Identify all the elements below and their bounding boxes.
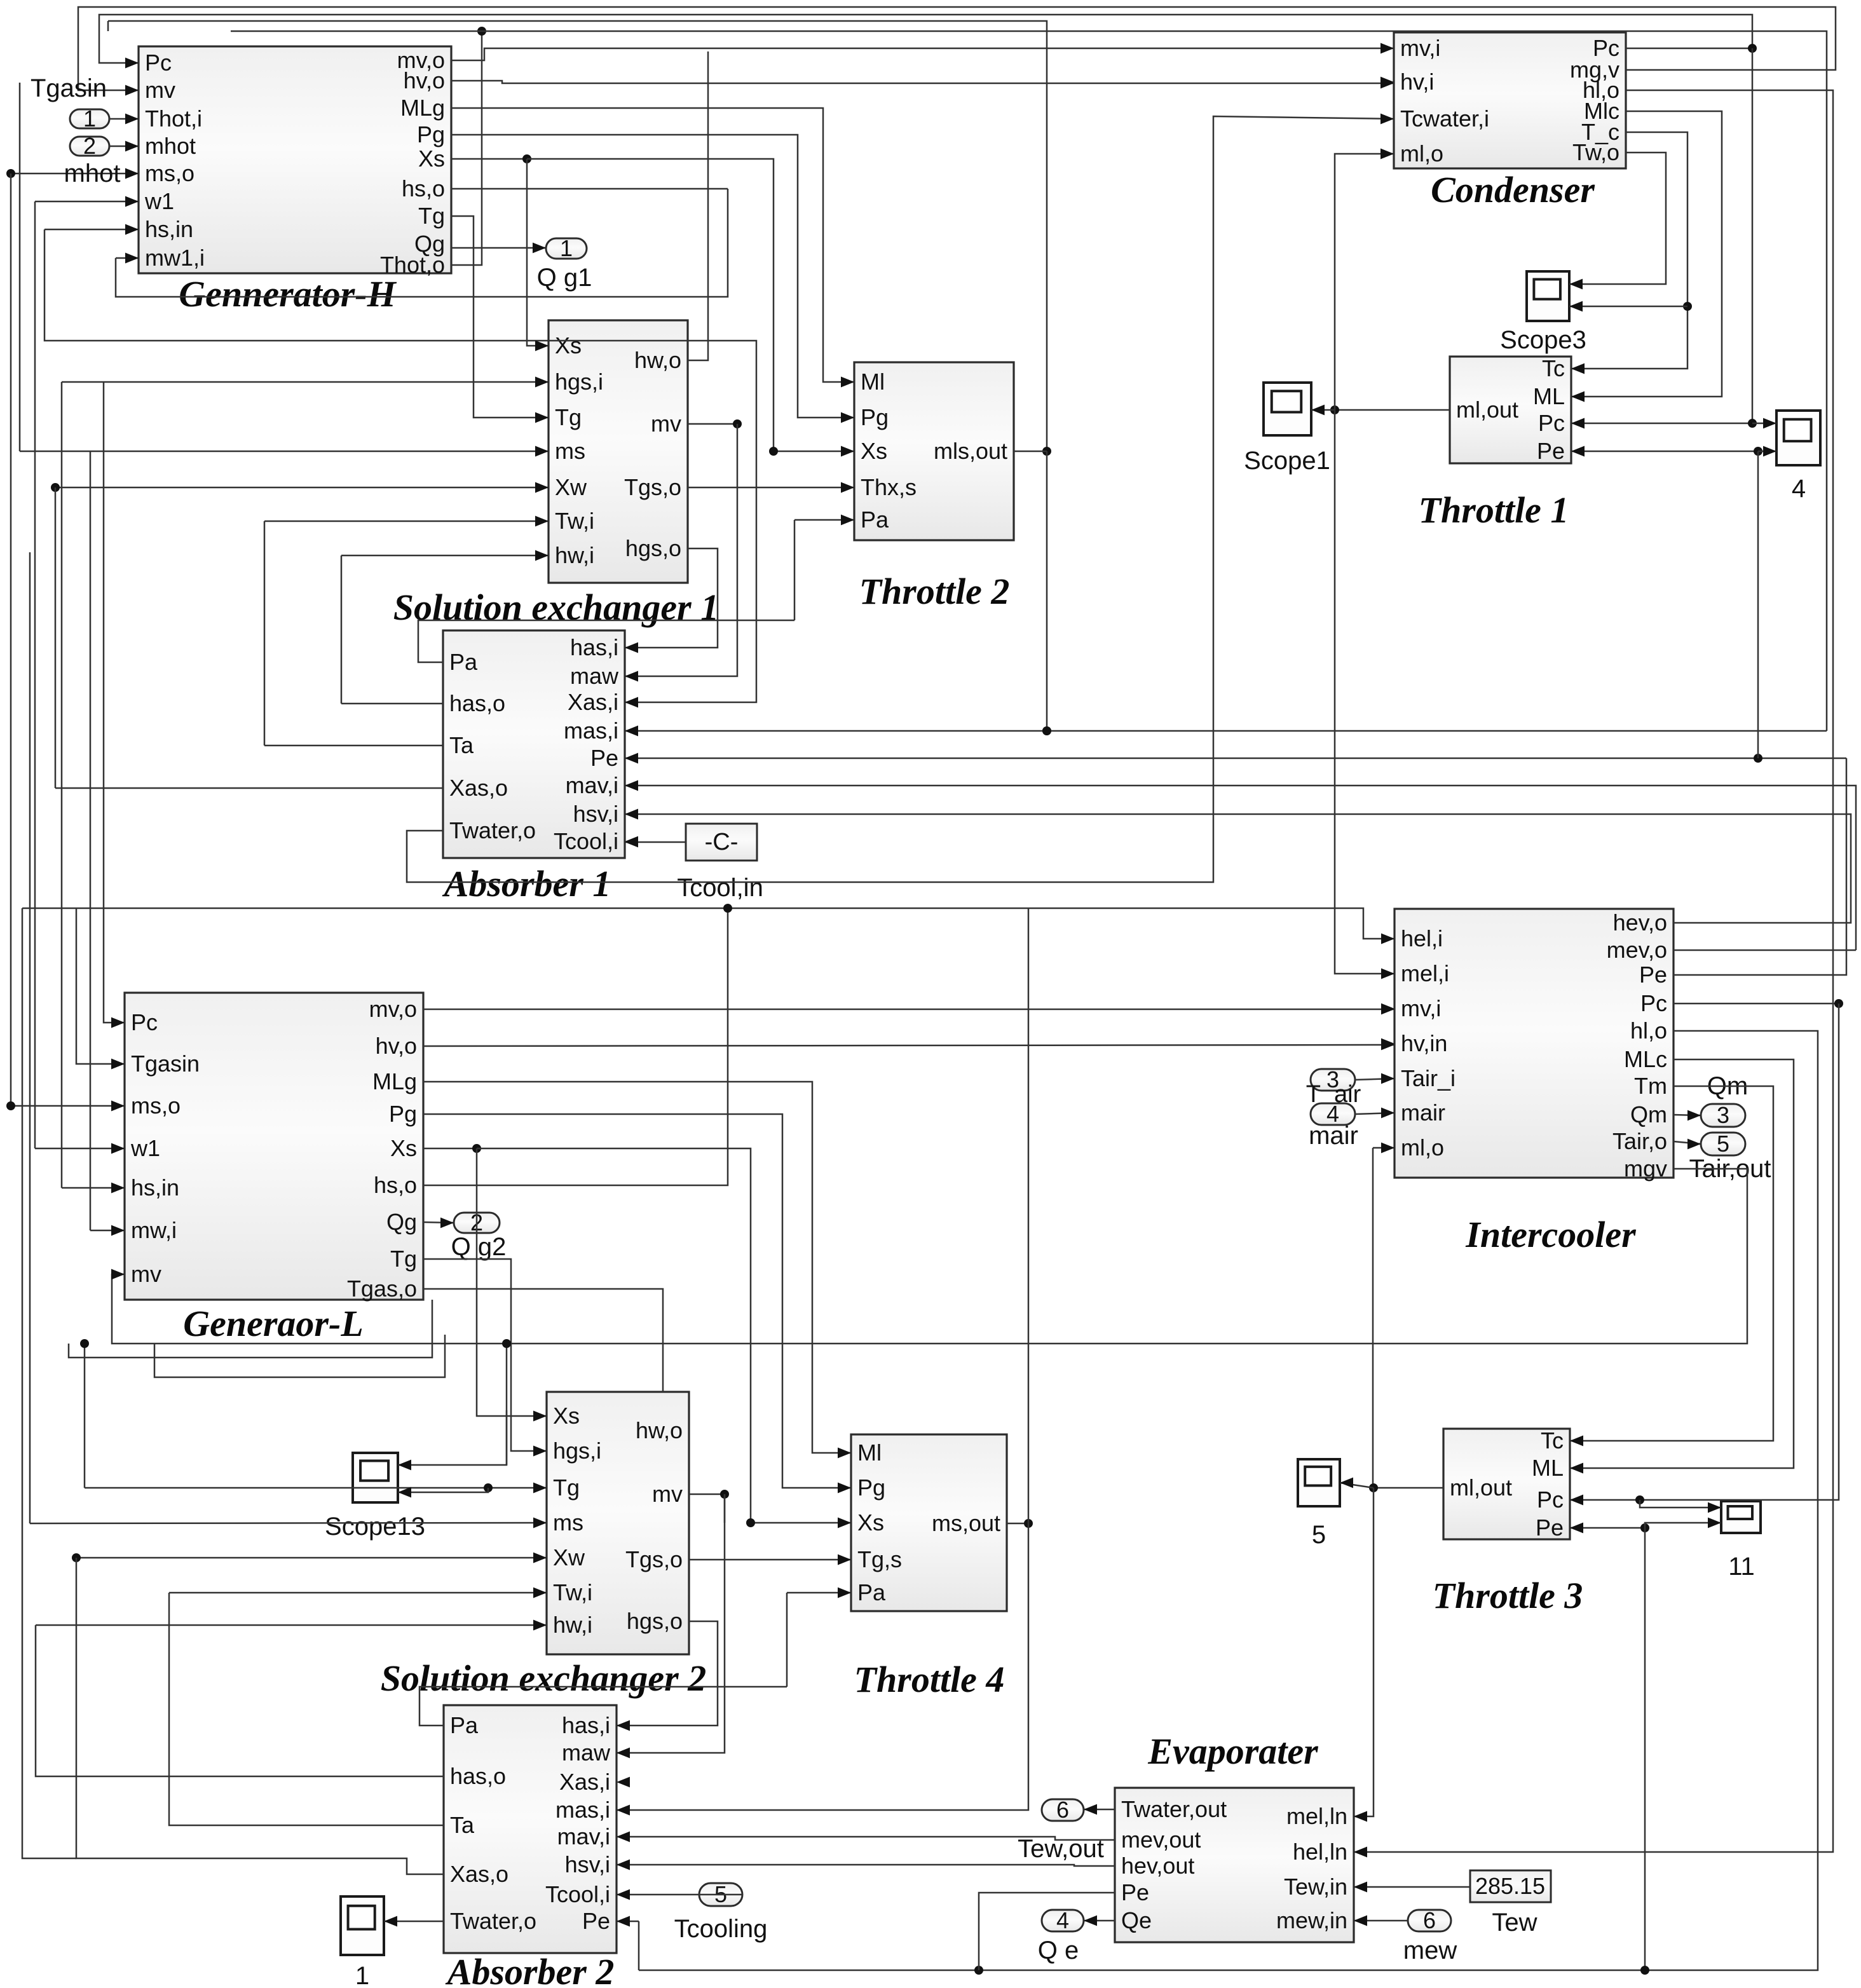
port oval 1 Thot,i	[70, 106, 109, 132]
wire Pe into Absorber2	[617, 1916, 639, 1927]
svg-text:Generaor-L: Generaor-L	[183, 1303, 364, 1344]
svg-text:mair: mair	[1309, 1122, 1358, 1150]
svg-text:Pc: Pc	[131, 1009, 158, 1035]
svg-text:Absorber 1: Absorber 1	[442, 863, 611, 904]
wire ml,out to Intercooler mel,i	[1335, 410, 1394, 979]
wire x47 long vertical	[29, 552, 31, 1523]
svg-text:mv: mv	[652, 1481, 683, 1507]
wire Qg to oval2	[423, 1218, 454, 1229]
svg-text:Throttle 4: Throttle 4	[854, 1659, 1005, 1700]
svg-text:Tgs,o: Tgs,o	[624, 474, 681, 500]
svg-text:mel,ln: mel,ln	[1286, 1803, 1347, 1829]
svg-text:MLc: MLc	[1624, 1046, 1667, 1072]
scope Scope1	[1264, 383, 1311, 435]
wire hw,i feed	[36, 1620, 547, 1631]
svg-text:ml,o: ml,o	[1400, 140, 1443, 167]
port oval 1 Qg1 out	[546, 235, 587, 261]
wire Xs out	[423, 1144, 481, 1153]
port oval 3 Tair_i	[1311, 1066, 1355, 1093]
wire Twater,o to scope 1	[384, 1916, 444, 1927]
svg-text:MLg: MLg	[372, 1068, 417, 1094]
svg-text:hgs,o: hgs,o	[627, 1608, 683, 1634]
wire Pg to Throttle4 Pg	[423, 1114, 851, 1493]
svg-text:hs,in: hs,in	[145, 216, 193, 242]
wire GenL hs,o up to long line	[423, 904, 732, 1185]
svg-text:mv,i: mv,i	[1401, 995, 1441, 1021]
block Throttle 4	[838, 1434, 1007, 1700]
svg-text:ms,o: ms,o	[145, 160, 194, 186]
wire Pe to Throttle1 Pe	[1571, 446, 1762, 457]
wire mls,out stub	[1014, 451, 1047, 453]
wire mv out	[689, 1490, 729, 1499]
wire Pa hook to Throttle2 Pa	[418, 620, 794, 662]
svg-text:1: 1	[560, 235, 573, 261]
wire hs,in loop down to Absorber1 Xas,i	[44, 229, 756, 707]
wire to Scope1	[1311, 405, 1335, 416]
svg-text:ms,o: ms,o	[131, 1093, 181, 1119]
svg-text:Tair_i: Tair_i	[1401, 1065, 1455, 1091]
svg-text:ml,o: ml,o	[1401, 1134, 1444, 1161]
wire MLg to Throttle2 Ml	[451, 108, 854, 387]
wire Pc to Throttle3	[1570, 1004, 1839, 1505]
wire mgv to Generaor-L mv	[111, 1169, 1747, 1344]
wire Ta out to left	[264, 745, 443, 747]
wire -C- to Tcool,i	[625, 837, 686, 848]
svg-text:Tg: Tg	[390, 1246, 417, 1272]
svg-text:hw,i: hw,i	[553, 1612, 592, 1638]
svg-text:Xs: Xs	[555, 332, 582, 358]
svg-text:Tc: Tc	[1541, 1427, 1564, 1454]
wire ms,out stub	[1007, 1519, 1033, 1528]
block Condenser	[1380, 32, 1626, 210]
wire Twater,o to Condenser Tcwater,i	[407, 114, 1394, 882]
svg-text:Throttle 1: Throttle 1	[1419, 489, 1569, 531]
wire mew oval to mew,in	[1354, 1916, 1408, 1926]
wire Xs to Throttle4 Xs	[477, 1148, 851, 1528]
svg-text:mev,out: mev,out	[1121, 1827, 1201, 1853]
svg-text:Tg,s: Tg,s	[857, 1546, 902, 1572]
block Throttle 3	[1433, 1427, 1583, 1616]
wire Tgs,o to Throttle2 Thx,s	[688, 482, 854, 493]
wire y33 stub down	[107, 21, 109, 31]
wire Tair,o to oval5	[1674, 1139, 1701, 1150]
wire Xs to Throttle2 Xs	[527, 159, 854, 456]
port oval 2 mhot	[70, 133, 109, 159]
svg-text:ms: ms	[553, 1509, 583, 1535]
svg-text:hsv,i: hsv,i	[573, 801, 618, 827]
wire mev,o to mav,i	[625, 780, 1856, 950]
svg-text:mls,out: mls,out	[934, 438, 1007, 464]
block Throttle 1	[1419, 355, 1585, 531]
svg-text:Pc: Pc	[1537, 1487, 1564, 1513]
wire left trunk x17	[10, 174, 12, 1106]
svg-text:Pg: Pg	[389, 1101, 417, 1127]
svg-text:hw,o: hw,o	[634, 347, 681, 373]
svg-text:Tgasin: Tgasin	[131, 1051, 200, 1077]
wire Tw,i vertical from Ta	[264, 521, 266, 745]
svg-text:Condenser: Condenser	[1431, 169, 1595, 210]
svg-text:mv: mv	[145, 77, 175, 103]
wire Pc to scope4	[1752, 418, 1776, 429]
wire hgs,i feed	[62, 377, 549, 388]
wire Tgs,o to Throttle4 Tg,s	[689, 1555, 851, 1565]
wire hs,in feed GenL	[62, 1183, 125, 1194]
wire Pc branch to 11	[1640, 1500, 1721, 1513]
port oval 6 Tew,out	[1042, 1797, 1084, 1823]
wire mev,o out	[1674, 950, 1856, 951]
svg-text:mhot: mhot	[145, 133, 196, 159]
svg-text:w1: w1	[144, 188, 174, 214]
wire Qe to oval4	[1084, 1916, 1115, 1926]
wire hw,i feed	[341, 550, 549, 561]
svg-text:ms: ms	[555, 438, 585, 464]
wire ms feed horizontal	[20, 446, 549, 457]
svg-text:Tew,in: Tew,in	[1284, 1874, 1347, 1900]
wire hel,i feed long line	[22, 908, 1394, 944]
wire into w1	[35, 196, 139, 207]
port oval 6 mew	[1408, 1907, 1451, 1933]
svg-text:Tm: Tm	[1634, 1073, 1667, 1099]
wire mv branch	[724, 1494, 726, 1523]
wire port2 to mhot	[109, 141, 139, 152]
svg-text:Tw,i: Tw,i	[555, 508, 594, 534]
wire vertical ml to Throttle3	[1372, 1148, 1374, 1488]
wire ms,out to Absorber2 mas,i	[617, 1523, 1028, 1815]
wire into hs,in	[44, 224, 139, 235]
wire Tg feed vertical	[80, 1339, 89, 1488]
svg-text:Thot,i: Thot,i	[145, 106, 202, 132]
wire to scope5	[1340, 1478, 1374, 1488]
wire Pe into Throttle3	[1570, 1523, 1649, 1534]
wire Pe out to bottom trunk	[979, 1893, 1115, 1970]
block Solution exchanger 1	[393, 320, 719, 628]
svg-text:hel,ln: hel,ln	[1293, 1839, 1347, 1865]
svg-text:Solution exchanger 2: Solution exchanger 2	[381, 1658, 706, 1699]
svg-text:Tcool,i: Tcool,i	[554, 828, 618, 854]
svg-text:mv,o: mv,o	[369, 996, 417, 1022]
wire mair from port4	[1355, 1108, 1394, 1119]
wire GenH hs,o out	[451, 188, 728, 190]
wire Tcooling to Tcool,i	[617, 1889, 742, 1900]
svg-text:11: 11	[1728, 1553, 1755, 1581]
svg-text:Pc: Pc	[145, 50, 172, 76]
wire 285.15 to Tew,in	[1354, 1882, 1470, 1893]
wire left vertical x31	[19, 83, 21, 451]
svg-text:Qe: Qe	[1121, 1907, 1152, 1933]
svg-text:Xas,i: Xas,i	[568, 689, 618, 715]
wire Pc net to Gennerator-H Pc	[99, 15, 1757, 68]
svg-text:Pe: Pe	[1639, 962, 1667, 988]
wire GenH Tg to SolEx1 Tg	[451, 216, 549, 423]
block Gennerator-H	[125, 46, 451, 315]
svg-text:Throttle 3: Throttle 3	[1433, 1575, 1583, 1616]
wire x142 long vertical	[90, 451, 92, 1230]
wire Pa into Throttle4	[787, 1588, 851, 1598]
wire Pe to scope4 in2	[1758, 446, 1776, 457]
wire Tair_i from port3	[1355, 1073, 1394, 1084]
svg-text:Tair,o: Tair,o	[1612, 1128, 1667, 1154]
svg-text:Pa: Pa	[450, 1712, 479, 1738]
wire x537 vertical	[341, 555, 343, 704]
svg-text:Xw: Xw	[555, 474, 587, 500]
wire branch to Scope13 b	[398, 1487, 488, 1498]
wire ml,out stub	[1330, 405, 1450, 414]
svg-text:Pg: Pg	[857, 1474, 885, 1501]
svg-text:Gennerator-H: Gennerator-H	[179, 273, 397, 315]
wire hl,o to Evaporater hel,ln	[1354, 90, 1833, 1857]
wire Condenser Pc out stub	[1626, 48, 1752, 50]
wire left loop to Xas,o	[76, 1558, 444, 1874]
svg-text:hv,in: hv,in	[1401, 1030, 1447, 1056]
svg-text:Pe: Pe	[1121, 1879, 1149, 1905]
wire Mlc to Throttle1 ML	[1571, 111, 1722, 402]
svg-text:mas,i: mas,i	[564, 718, 618, 744]
wire bottom loop 2 under GenL	[154, 1335, 445, 1377]
svg-text:hl,o: hl,o	[1630, 1018, 1667, 1044]
wire Tw,o to Scope3 in1	[1569, 153, 1666, 289]
block Throttle 2	[841, 362, 1014, 612]
wire Xs out	[451, 154, 531, 163]
port oval 3 Qm out	[1701, 1102, 1745, 1128]
scope 1	[341, 1896, 384, 1955]
svg-text:Thx,s: Thx,s	[861, 474, 917, 500]
svg-text:hgs,i: hgs,i	[555, 369, 603, 395]
wire Pe bottom trunk	[639, 1528, 1649, 1975]
svg-text:Xw: Xw	[553, 1544, 585, 1570]
wire Ta link	[169, 1593, 444, 1825]
svg-text:Qm: Qm	[1630, 1101, 1667, 1127]
block Solution exchanger 2	[381, 1392, 706, 1699]
wire w1 feed GenL	[35, 1143, 125, 1154]
svg-text:hev,out: hev,out	[1121, 1853, 1194, 1879]
wire to Evaporater mel,ln	[1354, 1488, 1374, 1821]
svg-text:Pg: Pg	[861, 404, 889, 430]
wire T_c branch to Scope3 in2	[1569, 301, 1687, 312]
wire has,o link	[36, 1625, 444, 1776]
wire upper mid vertical	[108, 21, 1051, 456]
svg-text:mew: mew	[1403, 1937, 1457, 1964]
svg-text:Tcool,i: Tcool,i	[545, 1881, 610, 1907]
wire ms feed	[30, 1518, 547, 1528]
block Intercooler	[1381, 909, 1674, 1255]
svg-text:ML: ML	[1533, 383, 1565, 409]
svg-text:Pc: Pc	[1538, 410, 1565, 436]
svg-text:Ta: Ta	[450, 1812, 475, 1838]
svg-text:Pa: Pa	[861, 507, 889, 533]
svg-text:Xas,o: Xas,o	[449, 775, 508, 801]
wire Xs to SolEx2	[477, 1148, 547, 1421]
svg-text:mew,in: mew,in	[1276, 1907, 1347, 1933]
wire mhot line to ms,o	[6, 168, 139, 179]
svg-text:Intercooler: Intercooler	[1465, 1214, 1636, 1255]
svg-text:-C-: -C-	[705, 829, 739, 855]
svg-text:Scope1: Scope1	[1244, 447, 1330, 475]
svg-text:Tg: Tg	[418, 203, 445, 229]
wire x87 vertical	[55, 487, 57, 788]
svg-text:mv,i: mv,i	[1400, 35, 1440, 61]
svg-text:Evaporater: Evaporater	[1147, 1731, 1318, 1772]
wire Intercooler Pe out right	[1674, 758, 1846, 975]
wire mv,o to Condenser mv,i	[451, 43, 1394, 60]
svg-text:Tg: Tg	[555, 404, 582, 430]
constant 285.15 Tew	[1470, 1870, 1551, 1902]
svg-text:mv: mv	[651, 411, 681, 437]
svg-text:mav,i: mav,i	[566, 772, 618, 798]
svg-text:ml,out: ml,out	[1456, 397, 1518, 423]
wire hw,o up to top bus	[688, 51, 708, 360]
wire mw,i feed GenL	[90, 1225, 125, 1236]
svg-text:hv,o: hv,o	[376, 1033, 417, 1059]
port oval 5 Tcooling	[699, 1881, 742, 1907]
wire Pa link vertical	[786, 1593, 788, 1687]
svg-text:5: 5	[1717, 1131, 1729, 1157]
wire Pe link to bottom trunk	[638, 1921, 640, 1970]
svg-text:Pe: Pe	[590, 745, 618, 771]
wire mg,v to Gennerator-H mv (Tgasin)	[78, 7, 1836, 95]
svg-text:has,i: has,i	[562, 1712, 610, 1738]
svg-text:6: 6	[1056, 1797, 1069, 1823]
svg-text:Ml: Ml	[857, 1440, 882, 1466]
wire Pe line to Absorber1	[625, 753, 1846, 764]
wire Tg feed SolEx2	[85, 1483, 547, 1494]
wire mv to Absorber1 maw	[625, 424, 737, 681]
svg-text:2: 2	[83, 133, 96, 159]
wire Intercooler hl,o down right edge	[1645, 1031, 1818, 1970]
wire Absorber2 Pa hook	[419, 1687, 787, 1726]
wire MLg to Throttle4 Ml	[423, 1082, 851, 1458]
svg-text:mhot: mhot	[64, 160, 121, 187]
port oval 4 Qe	[1042, 1907, 1084, 1933]
svg-text:Tg: Tg	[553, 1474, 580, 1501]
svg-text:Xas,i: Xas,i	[559, 1769, 610, 1795]
wire Xw feed	[72, 1553, 547, 1563]
wire Pa vertical	[794, 520, 796, 620]
svg-text:Q g1: Q g1	[537, 264, 592, 292]
wire port1 to Thot,i	[109, 114, 139, 125]
svg-text:Throttle 2: Throttle 2	[859, 571, 1010, 612]
wire T_c to Throttle1 Tc	[1571, 132, 1692, 374]
svg-text:Scope13: Scope13	[325, 1513, 425, 1541]
wire Evap mev,out to Absorber2 mav,i	[617, 1832, 1115, 1842]
svg-text:Tgs,o: Tgs,o	[625, 1546, 683, 1572]
wire Pc to Throttle1 Pc	[1571, 418, 1757, 429]
svg-text:Qg: Qg	[386, 1209, 417, 1235]
scope 11	[1721, 1501, 1761, 1533]
svg-text:mav,i: mav,i	[557, 1823, 610, 1849]
wire mv out	[688, 419, 742, 428]
svg-text:ML: ML	[1532, 1455, 1564, 1481]
wire mls,out down	[1042, 451, 1051, 735]
svg-text:Tc: Tc	[1542, 355, 1565, 381]
svg-text:5: 5	[1312, 1521, 1326, 1549]
svg-text:Xs: Xs	[390, 1135, 417, 1161]
svg-text:hsv,i: hsv,i	[565, 1851, 610, 1877]
svg-text:Tew: Tew	[1492, 1909, 1537, 1937]
svg-text:Pe: Pe	[1537, 438, 1565, 464]
svg-text:Pc: Pc	[1640, 990, 1667, 1016]
svg-text:6: 6	[1423, 1907, 1436, 1933]
svg-text:Tw,i: Tw,i	[553, 1579, 592, 1605]
wire Qg to Qg1 oval	[451, 243, 546, 254]
wire Xas,o to left trunk	[55, 787, 443, 789]
scope Scope13	[353, 1453, 398, 1502]
wire trunk to Generaor-L ms,o	[6, 1101, 125, 1112]
svg-text:Tcooling: Tcooling	[674, 1915, 768, 1943]
svg-text:mair: mair	[1401, 1100, 1445, 1126]
wire hgs,o to Absorber1 has,i	[625, 548, 718, 653]
block Generaor-L	[111, 993, 423, 1344]
svg-text:has,o: has,o	[450, 1763, 506, 1789]
svg-text:mw1,i: mw1,i	[145, 245, 205, 271]
svg-text:Xs: Xs	[553, 1403, 580, 1429]
wire scope13 feed from trunk	[502, 1339, 511, 1465]
svg-text:Solution exchanger 1: Solution exchanger 1	[393, 587, 719, 628]
wire Tw,i feed	[264, 516, 549, 527]
svg-text:hel,i: hel,i	[1401, 925, 1443, 951]
svg-text:mgv: mgv	[1624, 1155, 1667, 1181]
svg-text:Tgas,o: Tgas,o	[347, 1276, 417, 1302]
wire mw1,i hook from hs,o	[116, 189, 728, 297]
svg-text:ml,out: ml,out	[1450, 1474, 1512, 1501]
svg-text:hs,o: hs,o	[374, 1172, 417, 1198]
svg-text:Xs: Xs	[861, 438, 887, 464]
svg-text:hs,o: hs,o	[402, 175, 445, 201]
wire Thot,o up to y49 trunk	[451, 27, 486, 265]
wire Tgas,o down	[423, 1289, 663, 1392]
svg-text:3: 3	[1717, 1102, 1729, 1128]
svg-text:hs,in: hs,in	[131, 1174, 179, 1201]
scope 4	[1776, 411, 1820, 465]
wire GenL Tg to SolEx2 hgs,i	[423, 1259, 547, 1456]
block Absorber 1	[442, 630, 638, 904]
svg-text:mev,o: mev,o	[1607, 937, 1667, 963]
scope 5	[1298, 1459, 1340, 1506]
wire MLc to Throttle3 ML	[1570, 1059, 1794, 1473]
scope Scope3	[1527, 271, 1569, 321]
wire left edge vertical	[22, 908, 76, 1858]
wire Qm to oval3	[1674, 1110, 1701, 1121]
wire Pc vertical right	[1752, 48, 1754, 423]
svg-text:MLg: MLg	[400, 95, 445, 121]
wire Twater,out to oval6	[1084, 1804, 1115, 1815]
svg-text:Pe: Pe	[582, 1908, 610, 1934]
svg-text:hv,i: hv,i	[1400, 69, 1434, 95]
svg-text:Xs: Xs	[857, 1509, 884, 1535]
svg-text:maw: maw	[562, 1739, 611, 1766]
wire ml,o feed	[1373, 1143, 1394, 1154]
wire Pc out	[1674, 999, 1843, 1008]
svg-text:Absorber 2: Absorber 2	[446, 1951, 615, 1988]
block Absorber 2	[444, 1705, 630, 1988]
wire w1 long vertical	[34, 201, 36, 1148]
svg-text:4: 4	[1056, 1907, 1069, 1933]
svg-text:mas,i: mas,i	[556, 1797, 610, 1823]
svg-text:hgs,i: hgs,i	[553, 1438, 601, 1464]
wire into Scope13	[398, 1410, 507, 1470]
svg-text:has,o: has,o	[449, 690, 505, 716]
wire Pg to Throttle2 Pg	[451, 135, 854, 423]
svg-text:Tw,o: Tw,o	[1572, 139, 1619, 165]
svg-text:hev,o: hev,o	[1613, 909, 1667, 936]
svg-text:mw,i: mw,i	[131, 1217, 177, 1243]
port oval 4 mair	[1311, 1101, 1355, 1127]
svg-text:Tcool,in: Tcool,in	[677, 874, 763, 902]
wire Pc into GenL via left trunk	[104, 382, 125, 1028]
svg-text:Ta: Ta	[449, 732, 474, 758]
block Evaporater	[1115, 1731, 1367, 1942]
port oval 2 Qg2	[454, 1209, 500, 1236]
svg-text:hv,o: hv,o	[404, 67, 445, 93]
